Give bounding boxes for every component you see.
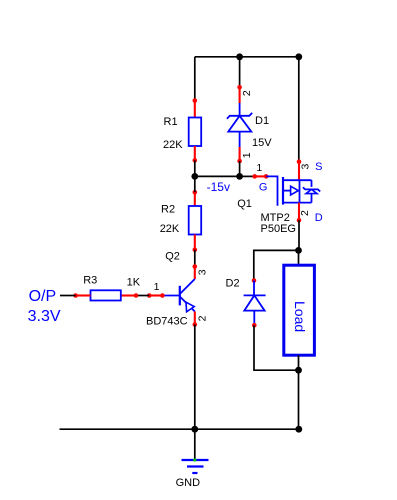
svg-text:1: 1 <box>154 281 160 293</box>
wire -15v rail <box>195 175 240 177</box>
svg-text:R3: R3 <box>83 275 97 287</box>
label G (gate) <box>259 182 268 194</box>
pin number 1 (Q1 gate) <box>256 162 262 174</box>
svg-text:22K: 22K <box>163 139 183 151</box>
wire bottom rail <box>60 428 299 430</box>
label D1 <box>255 115 269 127</box>
pin R2.2 (bottom) <box>193 235 198 253</box>
pin D1.1 (bottom) <box>237 147 242 163</box>
wire Q1 drain to load node <box>298 220 300 250</box>
svg-text:P50EG: P50EG <box>261 223 296 235</box>
wire Q1 source column <box>298 57 300 162</box>
wire O/P input <box>60 295 76 297</box>
svg-text:R2: R2 <box>161 204 175 216</box>
wire ground stem <box>194 429 196 459</box>
label Q2 <box>165 251 180 263</box>
net label -15v <box>207 180 230 194</box>
svg-text:15V: 15V <box>252 137 272 149</box>
wire drain node to load <box>298 250 300 265</box>
wire R3 to Q2 base <box>136 295 149 297</box>
label MTP2 <box>261 212 290 224</box>
label Q1 <box>237 198 252 210</box>
label S (source) <box>315 161 322 173</box>
svg-text:G: G <box>259 182 268 194</box>
svg-text:BD743C: BD743C <box>146 316 188 328</box>
pin Q2.3 collector <box>193 264 198 279</box>
wire left column top (rail to R1) <box>194 57 196 101</box>
pin number 3 (Q2 collector) <box>196 269 208 275</box>
wire Q2 emitter to bottom rail <box>194 325 196 430</box>
pin R1.2 (bottom) <box>193 146 198 163</box>
pin number 3 (Q1 source) <box>300 164 312 170</box>
svg-text:2: 2 <box>241 90 253 96</box>
ground <box>182 458 209 473</box>
pin number 1 (D1 bottom) <box>241 152 253 158</box>
svg-text:2: 2 <box>299 210 311 216</box>
svg-text:1: 1 <box>256 162 262 174</box>
label R2 <box>161 204 175 216</box>
wire load junction to bottom rail <box>298 370 300 429</box>
node drain junction <box>295 247 302 254</box>
wire load bottom <box>298 355 300 370</box>
wire -15v node to Q1 gate pin <box>240 175 255 177</box>
pin D2.1 (bottom) <box>252 323 257 328</box>
pin number 2 (D1 top) <box>241 90 253 96</box>
wire D1 to -15v node <box>239 161 241 176</box>
label R1 <box>164 116 178 128</box>
pin Q1.2 drain <box>297 203 302 223</box>
label D2 <box>226 278 240 290</box>
svg-text:D2: D2 <box>226 278 240 290</box>
port label O/P <box>29 288 57 305</box>
svg-text:MTP2: MTP2 <box>261 212 290 224</box>
svg-text:3.3V: 3.3V <box>28 308 61 325</box>
node load bottom junction <box>295 367 302 374</box>
value 22K (R1) <box>163 139 183 151</box>
svg-text:S: S <box>315 161 322 173</box>
node top rail right end <box>295 53 302 60</box>
resistor R1 <box>189 118 202 147</box>
svg-text:3: 3 <box>300 164 312 170</box>
pin Q1.3 source <box>297 159 302 180</box>
svg-text:3: 3 <box>196 269 208 275</box>
pin number 1 (Q2 base) <box>154 281 160 293</box>
wire top rail <box>195 56 299 58</box>
pin R3.1 (left) <box>73 293 90 298</box>
svg-text:R1: R1 <box>164 116 178 128</box>
pin Q2.1 base <box>147 293 165 298</box>
node -15v left junction <box>191 173 198 180</box>
value 15V (D1) <box>252 137 272 149</box>
svg-text:1: 1 <box>241 152 253 158</box>
svg-text:O/P: O/P <box>29 288 57 305</box>
label GND <box>176 477 201 489</box>
diode D2 <box>244 281 266 326</box>
svg-text:2: 2 <box>196 315 208 321</box>
svg-text:Load: Load <box>292 301 308 332</box>
port label 3.3V <box>28 308 61 325</box>
svg-text:Q2: Q2 <box>165 251 180 263</box>
wire R2 to Q2 collector <box>194 250 196 267</box>
pin number 2 (Q1 drain) <box>299 210 311 216</box>
label P50EG <box>261 223 296 235</box>
pin R1.1 (top) <box>193 98 198 117</box>
wire D2 to load bottom <box>254 325 299 370</box>
label D (drain) <box>315 212 323 224</box>
svg-text:1K: 1K <box>127 276 141 288</box>
label BD743C <box>146 316 188 328</box>
label Load <box>292 301 308 332</box>
wire drain node to D2 <box>254 250 299 280</box>
transistor Q2 BD743C <box>162 279 194 312</box>
resistor R2 <box>189 206 202 235</box>
wire D1 column top <box>239 57 241 88</box>
pin Q2.2 emitter <box>193 312 198 327</box>
resistor R3 <box>91 290 121 300</box>
wire R1 to -15v node <box>194 160 196 176</box>
pin D2.2 (top) <box>252 278 257 283</box>
node bottom rail left junction <box>191 426 198 433</box>
value 22K (R2) <box>160 223 180 235</box>
svg-text:D1: D1 <box>255 115 269 127</box>
svg-text:GND: GND <box>176 477 201 489</box>
label R3 <box>83 275 97 287</box>
pin R2.1 (top) <box>193 190 198 206</box>
wire -15v node to R2 <box>194 176 196 192</box>
svg-text:D: D <box>315 212 323 224</box>
value 1K (R3) <box>127 276 141 288</box>
node -15v mid junction <box>236 173 243 180</box>
svg-text:-15v: -15v <box>207 180 230 194</box>
svg-text:22K: 22K <box>160 223 180 235</box>
load LOAD <box>284 265 315 355</box>
pin R3.2 (right) <box>121 293 139 298</box>
pin D1.2 (top) <box>237 85 242 103</box>
mosfet Q1 MTP2P50EG <box>266 176 320 205</box>
node top rail / D1 junction <box>236 53 243 60</box>
pin Q1.1 gate <box>252 174 268 179</box>
zener diode D1 <box>227 103 252 147</box>
pin number 2 (Q2 emitter) <box>196 315 208 321</box>
svg-text:Q1: Q1 <box>237 198 252 210</box>
node bottom rail right junction <box>295 426 302 433</box>
